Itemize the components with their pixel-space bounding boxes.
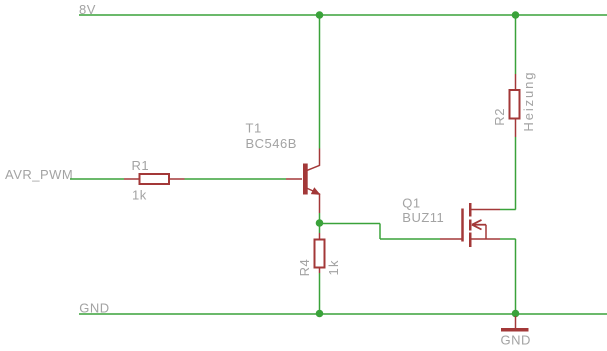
svg-text:R2: R2	[492, 108, 507, 126]
resistor R4 body	[315, 240, 325, 268]
wire base net	[185, 178, 287, 180]
junction GND rail / source column	[512, 310, 520, 318]
svg-text:1k: 1k	[132, 188, 147, 203]
resistor R4 pin 2	[319, 269, 321, 274]
wire R2 top net vertical	[515, 15, 517, 74]
transistor T1 emitter diagonal	[307, 188, 319, 194]
resistor R2 body	[510, 90, 520, 119]
wire emitter net vertical	[319, 213, 321, 233]
ground symbol stub	[515, 316, 517, 329]
resistor R1 body	[140, 174, 170, 184]
wire source net vertical down to GND rail	[515, 239, 517, 314]
wire gate net horizontal upper	[320, 223, 381, 225]
mosfet Q1 channel segment top	[469, 203, 472, 217]
wire AVR_PWM net	[70, 178, 124, 180]
svg-text:BUZ11: BUZ11	[402, 210, 444, 225]
mosfet Q1 bulk arrow barb lower	[472, 225, 482, 230]
transistor T1 base bar	[303, 164, 308, 195]
ground symbol bar	[501, 328, 529, 332]
wire drain net vertical up to R2	[515, 137, 517, 210]
mosfet Q1 bulk wire horizontal	[472, 224, 486, 226]
svg-text:AVR_PWM: AVR_PWM	[5, 167, 73, 182]
mosfet Q1 channel segment bottom	[469, 233, 472, 248]
wire drain net horizontal	[500, 209, 516, 211]
mosfet Q1 source pin	[471, 238, 500, 240]
transistor T1 emitter stub	[319, 194, 321, 214]
mosfet Q1 bulk wire vertical	[485, 225, 487, 239]
wire gate net horizontal lower	[380, 238, 440, 240]
mosfet Q1 drain pin	[471, 209, 500, 211]
junction node emitter / R4 / gate	[316, 219, 324, 227]
mosfet Q1 gate pin	[440, 238, 463, 240]
wire collector net vertical	[319, 15, 321, 149]
junction 8V rail / R2 column	[512, 11, 520, 19]
resistor R2 pin 2	[515, 120, 517, 138]
svg-text:R4: R4	[297, 259, 312, 277]
transistor T1 emitter arrow	[312, 188, 320, 194]
transistor T1 base pin	[286, 178, 302, 180]
junction 8V rail / T1 collector column	[316, 11, 324, 19]
svg-text:BC546B: BC546B	[246, 136, 297, 151]
junction GND rail / R4 column	[316, 310, 324, 318]
wire R4 to GND rail	[319, 273, 321, 314]
wire 8V rail	[79, 14, 607, 16]
wire source net horizontal	[500, 238, 516, 240]
transistor T1 collector diagonal	[307, 165, 319, 170]
svg-text:GND: GND	[501, 333, 531, 348]
resistor R2 pin 1	[515, 74, 517, 90]
resistor R1 pin 1	[124, 178, 139, 180]
mosfet Q1 bulk arrow barb upper	[472, 220, 482, 225]
svg-text:Q1: Q1	[402, 196, 420, 211]
wire GND rail	[79, 313, 607, 315]
transistor T1 collector stub	[319, 149, 321, 166]
svg-text:R1: R1	[132, 158, 150, 173]
resistor R4 pin 1	[319, 233, 321, 239]
wire gate net vertical	[379, 224, 381, 240]
resistor R1 pin 2	[170, 178, 185, 180]
mosfet Q1 channel segment middle	[469, 220, 472, 231]
svg-text:1k: 1k	[326, 259, 341, 275]
svg-text:Heizung: Heizung	[521, 71, 536, 132]
mosfet Q1 gate bar	[461, 209, 464, 242]
svg-text:T1: T1	[246, 121, 262, 136]
